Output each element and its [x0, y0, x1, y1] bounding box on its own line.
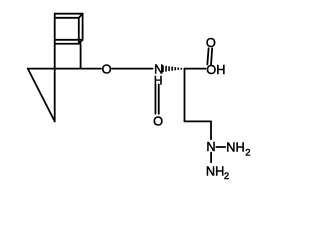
- hashed wedge N to chiral C: [163, 65, 181, 72]
- cage top lower edge: [55, 17, 79, 19]
- cage bottom upper edge: [55, 39, 83, 41]
- svg-text:OH: OH: [206, 62, 225, 77]
- svg-text:N: N: [206, 139, 215, 154]
- svg-text:H: H: [154, 74, 163, 88]
- svg-text:2: 2: [224, 171, 229, 182]
- cyclopropane hypotenuse: [28, 69, 55, 122]
- bond chiral C down: [184, 69, 186, 122]
- C=O carboxyl double bond line 1: [207, 48, 208, 64]
- N=O double bond line 2: [158, 84, 160, 113]
- bond N to NH2 right: [216, 146, 225, 148]
- C=O carboxyl double bond line 2: [211, 48, 212, 64]
- svg-text:NH: NH: [226, 140, 244, 155]
- cage diagonal bottom-right: [79, 40, 83, 44]
- cage right outer edge: [82, 14, 84, 40]
- svg-text:O: O: [206, 35, 216, 50]
- N=O double bond line 1: [154, 84, 156, 113]
- svg-text:NH: NH: [206, 164, 224, 179]
- cage top upper edge: [55, 13, 83, 15]
- cage bottom lower edge: [55, 43, 79, 45]
- bond cage to chain (right): [80, 44, 82, 69]
- bond N to NH2 down: [210, 153, 212, 163]
- cage diagonal top-right: [79, 14, 83, 18]
- bond O to N: [112, 68, 153, 70]
- cage left vertical (ring edge + bond down to cyclopropane apex): [54, 14, 56, 122]
- chain bond to O: [28, 68, 101, 70]
- svg-text:O: O: [102, 61, 112, 76]
- svg-text:2: 2: [245, 147, 250, 158]
- bond CH2-CH2 bottom: [185, 120, 212, 122]
- bond chiral C to carboxyl C: [185, 68, 206, 70]
- bond CH2 to hydrazine N: [210, 121, 212, 139]
- cage right inner edge: [78, 18, 80, 44]
- svg-text:O: O: [153, 114, 163, 129]
